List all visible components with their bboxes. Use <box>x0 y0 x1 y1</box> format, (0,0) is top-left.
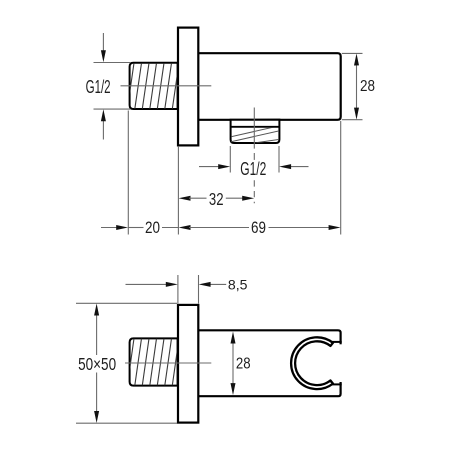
svg-text:G1/2: G1/2 <box>240 158 266 179</box>
wall flange (plan view) <box>178 305 198 423</box>
svg-text:28: 28 <box>360 78 375 95</box>
svg-text:8,5: 8,5 <box>228 277 248 292</box>
dimension 8,5 (flange thickness) <box>126 275 248 304</box>
svg-text:G1/2: G1/2 <box>86 77 111 97</box>
inlet centerline <box>121 85 212 87</box>
body (elbow housing, side view) <box>198 53 341 120</box>
holder C-clip ring <box>291 337 333 389</box>
svg-text:69: 69 <box>251 218 266 237</box>
svg-text:28: 28 <box>236 356 251 373</box>
dimension 50x50 (flange square) <box>76 303 177 423</box>
dimension 20 (inlet depth) <box>101 218 178 237</box>
dimension G1/2 (inlet diameter, left) <box>86 33 131 140</box>
extension line (flange wall face) <box>177 147 179 235</box>
outlet thread G1/2 (bottom spigot, side view) <box>229 120 281 147</box>
svg-text:32: 32 <box>209 189 224 209</box>
dimension G1/2 (outlet thread, below outlet) <box>199 146 309 179</box>
holder bar (body, plan view) <box>198 330 344 396</box>
extension line (body right face) <box>340 121 342 235</box>
inlet thread (hatched, plan view) <box>127 336 179 387</box>
inlet thread G1/2 (left, hatched, side view) <box>127 61 179 111</box>
svg-text:50×50: 50×50 <box>78 354 116 374</box>
dimension 28 (body height, right) <box>342 53 375 119</box>
inlet centerline (plan view) <box>125 362 211 364</box>
svg-text:20: 20 <box>145 218 160 237</box>
dimension 32 (flange face to outlet center) <box>179 189 255 209</box>
extension line (inlet left edge) <box>127 111 129 235</box>
wall flange (side view) <box>178 28 198 146</box>
dimension 28 (bar width, plan) <box>231 332 251 396</box>
outlet centerline (vertical, dashed below) <box>253 108 255 204</box>
dimension 69 (overall body length) <box>179 218 341 237</box>
